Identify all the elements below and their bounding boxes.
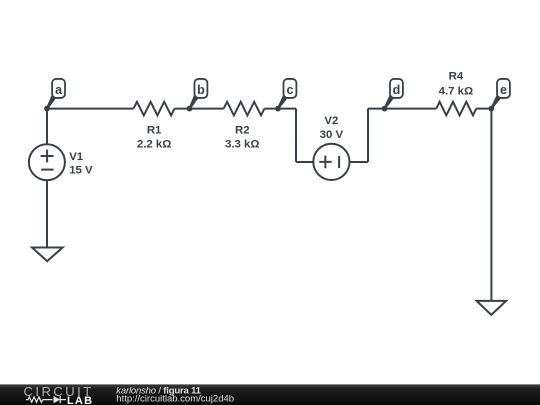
svg-text:LAB: LAB <box>67 395 93 405</box>
svg-text:e: e <box>500 83 507 97</box>
svg-text:R2: R2 <box>235 125 250 137</box>
svg-text:15 V: 15 V <box>69 165 93 177</box>
svg-text:2.2 kΩ: 2.2 kΩ <box>137 138 171 150</box>
svg-text:R4: R4 <box>449 70 464 82</box>
svg-text:b: b <box>197 83 205 97</box>
svg-text:a: a <box>55 83 63 97</box>
svg-text:d: d <box>393 83 401 97</box>
svg-text:V2: V2 <box>324 115 338 127</box>
svg-text:http://circuitlab.com/cuj2d4b: http://circuitlab.com/cuj2d4b <box>116 394 234 405</box>
svg-text:30 V: 30 V <box>320 129 344 141</box>
svg-text:c: c <box>287 83 294 97</box>
svg-text:3.3 kΩ: 3.3 kΩ <box>225 138 259 150</box>
svg-text:V1: V1 <box>69 151 84 163</box>
svg-text:4.7 kΩ: 4.7 kΩ <box>439 85 473 97</box>
svg-text:R1: R1 <box>147 125 162 137</box>
